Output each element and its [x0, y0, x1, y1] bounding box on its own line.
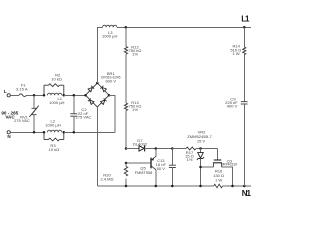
capacitor C2 [73, 95, 75, 114]
svg-text:400 V: 400 V [227, 103, 238, 108]
node Q3 drain ground [231, 185, 234, 188]
node top rail right junction [243, 26, 246, 29]
wire right rail top [243, 27, 245, 47]
svg-text:275 VAC: 275 VAC [76, 115, 92, 120]
node choke L right [63, 94, 66, 97]
svg-text:1%: 1% [132, 52, 138, 57]
svg-text:50 V: 50 V [157, 166, 166, 171]
node bridge right vertex [108, 94, 111, 97]
node choke N right [63, 131, 66, 134]
svg-text:1000 µH: 1000 µH [102, 34, 117, 39]
node L3 output junction [125, 26, 128, 29]
svg-text:1%: 1% [132, 107, 138, 112]
wire C9 to bottom rail [243, 104, 245, 186]
node N/RV1 junction [33, 131, 36, 134]
diode D7 [126, 148, 139, 150]
svg-text:N1: N1 [242, 189, 251, 198]
svg-text:1%: 1% [187, 157, 193, 162]
svg-text:DL4002: DL4002 [133, 142, 148, 147]
node Q5 base junction [125, 162, 128, 165]
zener VR2 [199, 147, 202, 150]
svg-text:1 W: 1 W [215, 178, 222, 183]
svg-text:3.15 A: 3.15 A [16, 87, 28, 92]
node choke N left [43, 131, 46, 134]
node C2 top [73, 94, 76, 97]
wire Q3 source to VR2 line [201, 166, 214, 168]
fuse F1 [19, 94, 26, 97]
wire bottom rail [97, 185, 213, 187]
wire R12 to R13 [125, 54, 127, 103]
node Q3 source junction [199, 166, 202, 169]
svg-text:275 VAC: 275 VAC [14, 118, 30, 123]
node Q5 collector ground [155, 185, 158, 188]
resistor R16 [214, 184, 223, 188]
bridge rectifier BR1 [86, 83, 110, 107]
svg-text:L: L [4, 89, 7, 94]
resistor R13 [124, 103, 127, 111]
terminal L [7, 94, 10, 97]
wire top rail [117, 26, 251, 28]
wire choke to bridge (neutral side) [64, 131, 115, 133]
capacitor C9 [241, 101, 248, 103]
resistor R3 [43, 132, 45, 139]
wire bridge right vertex to neutral line [109, 95, 115, 132]
wire bridge bottom vertex to ground rail [96, 107, 98, 186]
node C13 ground [171, 185, 174, 188]
wire R17 to VR2 node [196, 148, 218, 150]
svg-text:10 kΩ: 10 kΩ [49, 147, 60, 152]
inductor L1 [47, 93, 61, 95]
svg-text:600 V: 600 V [106, 79, 117, 84]
wire fuse to choke [26, 94, 44, 96]
resistor R14 [243, 47, 246, 55]
wire C13 node to R17 [172, 148, 186, 150]
resistor R12 [124, 47, 127, 55]
resistor R20 [125, 163, 127, 167]
node L/RV1 junction [33, 94, 36, 97]
varistor RV1 [33, 95, 35, 108]
node choke L left [43, 94, 46, 97]
MOSFET Q3 [217, 149, 219, 160]
wire choke to bridge (line side) [64, 94, 86, 96]
wire sense divider vertical [125, 27, 127, 46]
svg-text:1000 µH: 1000 µH [49, 100, 64, 105]
svg-text:1000 µH: 1000 µH [45, 122, 60, 127]
inductor L2 [47, 130, 61, 132]
svg-text:2.4 MΩ: 2.4 MΩ [100, 177, 113, 182]
svg-text:15 V: 15 V [197, 139, 206, 144]
wire R13 to D7 node [125, 111, 127, 149]
node R20 ground [125, 185, 128, 188]
node bottom rail right junction [243, 185, 246, 188]
wire R14 to C9 [243, 55, 245, 102]
node D7 anode junction [125, 147, 128, 150]
transistor Q5 [155, 147, 158, 150]
wire N terminal to choke [10, 131, 44, 133]
svg-text:IRFR310: IRFR310 [222, 162, 238, 167]
wire Q3 drain to ground rail [222, 167, 233, 186]
node bridge left vertex [84, 94, 87, 97]
svg-text:10 kΩ: 10 kΩ [51, 77, 62, 82]
wire D7 cathode to C13 node [145, 148, 173, 150]
resistor R2 [43, 85, 45, 95]
capacitor C13 [171, 147, 174, 150]
svg-text:1 W: 1 W [232, 51, 239, 56]
wire bridge top vertex up to L3 [97, 27, 102, 83]
wire L terminal to fuse [10, 94, 19, 96]
inductor L3 [103, 25, 117, 27]
node bridge top vertex [96, 82, 99, 85]
node C2 bottom [73, 131, 76, 134]
node VR2 ground [199, 185, 202, 188]
svg-text:FMMT558: FMMT558 [135, 170, 153, 175]
resistor R17 [186, 147, 196, 150]
terminal N [7, 131, 10, 134]
